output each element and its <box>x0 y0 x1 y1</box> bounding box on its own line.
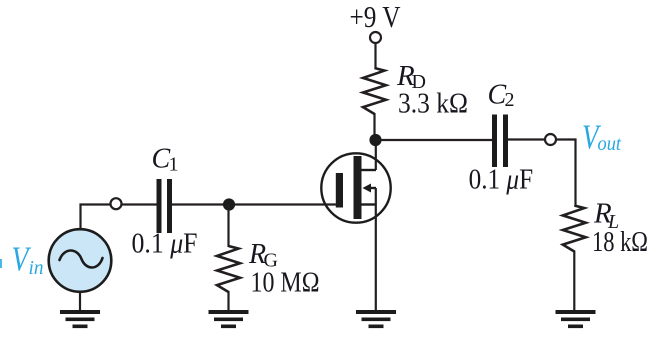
wire: RL to ground <box>573 251 575 312</box>
label Vout <box>582 118 621 157</box>
resistor RG <box>217 246 240 292</box>
capacitor C1 <box>157 179 173 233</box>
svg-text:+9 V: +9 V <box>350 0 401 34</box>
label Vin <box>12 240 44 280</box>
label RL <box>593 198 619 234</box>
svg-text:0.1 μF: 0.1 μF <box>132 229 198 260</box>
ground (under RL) <box>556 310 596 328</box>
svg-text:10 MΩ: 10 MΩ <box>251 268 320 299</box>
svg-text:0.1 μF: 0.1 μF <box>469 165 533 196</box>
wire: terminal to RD <box>374 43 376 69</box>
label RG <box>248 239 278 272</box>
wire: RD to drain node <box>373 113 375 140</box>
wire: Vin to ground <box>79 292 81 312</box>
svg-text:3.3 kΩ: 3.3 kΩ <box>398 89 468 120</box>
label C1 <box>152 144 179 176</box>
resistor RL <box>563 206 586 252</box>
wire: junction down to RG <box>227 205 229 248</box>
node: gate junction dot <box>223 198 235 210</box>
label RD <box>396 60 426 93</box>
stray scan artifact at left edge <box>0 259 2 268</box>
svg-text:out: out <box>598 133 622 155</box>
capacitor C2 <box>492 115 508 168</box>
svg-text:in: in <box>29 257 44 279</box>
wire: Vin riser and input rail to terminal <box>81 205 112 230</box>
wire: C1 to gate <box>172 203 342 205</box>
ground (under Q1) <box>356 310 396 328</box>
svg-text:1: 1 <box>169 154 179 176</box>
wire: terminal to C1 <box>122 203 157 205</box>
wire: C2 to output terminal <box>508 138 546 140</box>
wire: RG to ground <box>227 291 229 311</box>
output terminal (open circle) <box>545 134 556 145</box>
ground (under Vin) <box>60 310 100 328</box>
+9 V supply terminal <box>370 32 381 43</box>
node: drain junction dot <box>369 134 381 146</box>
svg-text:18 kΩ: 18 kΩ <box>592 227 648 258</box>
input terminal (open circle) <box>111 198 122 209</box>
transistor Q1 (n-channel D-MOSFET) <box>321 153 390 222</box>
wire: drain vertical <box>375 136 377 170</box>
wire: drain rail to C2 <box>376 139 494 141</box>
label C2 <box>488 80 515 112</box>
source Vin (AC source) <box>49 229 112 292</box>
wire: terminal to RL <box>556 140 576 207</box>
ground (under RG) <box>209 310 249 328</box>
svg-text:2: 2 <box>505 89 515 111</box>
resistor RD <box>363 68 386 114</box>
wire: source vertical to ground <box>375 188 377 311</box>
